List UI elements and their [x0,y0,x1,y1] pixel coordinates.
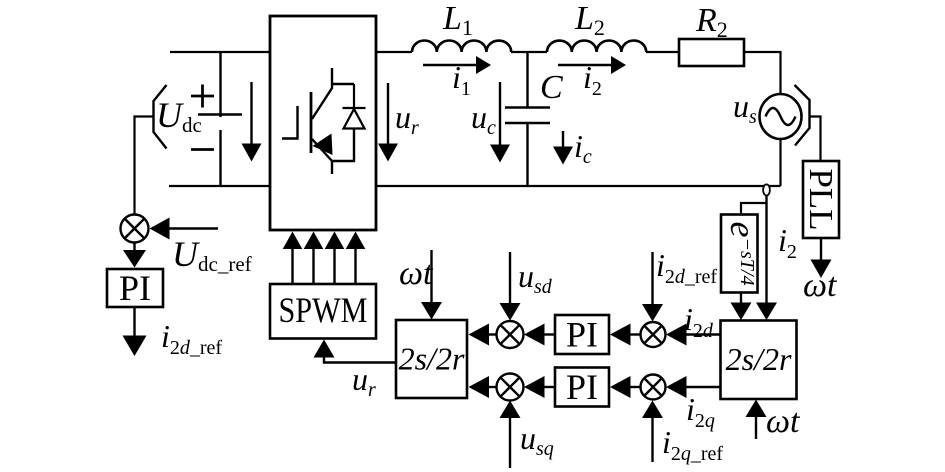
transistor Q1 body bar [310,92,313,153]
brace at us tap [795,85,810,146]
svg-text:PI: PI [119,268,151,308]
wire top rail inverter to L1 [376,51,412,53]
wire tap to delay block [741,203,767,215]
inverter block U1 [270,16,376,230]
svg-text:Udc_ref: Udc_ref [172,234,252,276]
arrow PI1 output i2d_ref [133,307,135,337]
svg-text:ωt: ωt [399,255,434,292]
wire us tap to PLL [810,117,821,162]
wire ur from 2s/2r to SPWM [324,357,396,363]
svg-text:i2q: i2q [686,391,715,432]
svg-text:ωt: ωt [766,403,801,440]
svg-text:Udc: Udc [156,95,202,137]
source us sine [766,108,796,125]
transistor Q1 gate [282,106,298,139]
arrow PI3 to mixer X5 [544,386,555,388]
resistor R2 [679,39,744,66]
wire R2 to source corner [744,52,781,95]
wire top DC rail left [170,51,270,53]
arrow 2s/2r to mixer X3 [686,333,721,335]
wire i2 feedback down [765,196,767,304]
svg-text:i2d: i2d [684,301,714,342]
wire source to bottom rail [779,139,781,187]
capacitor Udc (DC-link) [198,52,242,186]
arrow wt into right 2s/2r [755,416,757,439]
svg-text:i2: i2 [778,222,797,263]
block PI3 [555,368,609,407]
inductor L2 [547,41,646,53]
svg-text:PLL: PLL [802,169,839,231]
arrow uc down [499,82,501,145]
wire bottom rail right [376,185,781,187]
wire L1 to L2 [511,51,547,53]
arrow i1 [423,64,477,66]
transistor Q1 collector [312,68,332,119]
svg-text:ur: ur [395,99,419,139]
block 2s/2r left [396,320,467,398]
wire bottom DC rail left [169,185,270,187]
wire IGBT bottom stub [331,161,333,174]
source us [760,94,802,139]
arrow mixer X4 to PI3 [630,386,641,388]
block PI2 [555,315,609,354]
mixer X4 q-row right [641,375,666,400]
wire IGBT bottom link [332,128,354,161]
block SPWM [270,284,376,339]
svg-text:usd: usd [518,258,553,298]
svg-text:uc: uc [471,99,496,139]
brace at Udc tap [154,85,167,149]
plus sign [191,85,214,108]
arrow gate signal 2 [312,249,314,284]
arrow DC current down [250,82,252,144]
node junction [763,184,770,195]
arrow wt into left 2s/2r [430,250,432,303]
svg-text:usq: usq [520,420,554,460]
mixer X5 q-row [497,374,524,401]
mixer X1 Udc compare [121,215,149,243]
arrow i2d_ref into mixer X3 [651,252,653,305]
arrow usq into mixer X5 [509,418,511,468]
arrow i2q_ref into mixer X4 [651,417,653,462]
arrow d-row into left 2s/2r [488,333,497,335]
svg-text:us: us [733,88,757,128]
svg-text:L1: L1 [442,0,473,40]
svg-text:SPWM: SPWM [279,290,368,330]
svg-text:ic: ic [574,128,592,168]
capacitor C [505,108,550,124]
block PLL [803,161,839,238]
mixer X2 d-row [497,321,524,348]
arrow ur into SPWM [314,340,335,358]
arrow gate signal 4 [354,249,356,284]
arrow PLL output [820,238,822,260]
svg-text:2s/2r: 2s/2r [399,341,465,377]
svg-text:i2d_ref: i2d_ref [656,247,717,288]
wire delay output [740,293,742,304]
wire L2 to R2 [646,51,679,53]
arrow Udc_ref into mixer X1 [168,227,218,229]
minus sign [191,148,214,151]
svg-text:C: C [540,69,563,106]
block 2s/2r right [721,321,797,400]
block delay e^-sT/4 [721,215,758,293]
arrow delay into 2s/2r [731,303,752,321]
arrow ur down [387,83,389,144]
arrow i2 into 2s/2r [756,303,777,321]
svg-text:ωt: ωt [803,267,838,304]
arrow i2 [558,64,612,66]
wire IGBT top link [332,83,354,85]
inductor L1 [412,41,511,53]
svg-text:ur: ur [352,361,376,401]
arrow mixer X1 to PI1 [133,243,135,252]
svg-text:i2d_ref: i2d_ref [161,318,222,359]
arrow ic down [562,131,564,147]
svg-text:PI: PI [566,315,598,355]
mixer X3 d-row right [641,322,666,347]
wire Udc tap to sense line [135,117,154,215]
arrow usd into mixer X2 [509,252,511,304]
arrow PI2 to mixer X2 [544,333,555,335]
svg-text:R2: R2 [695,2,728,42]
arrow gate signal 1 [291,249,293,284]
arrow 2s/2r to mixer X4 [686,386,721,388]
diode D1 [343,84,366,129]
capacitor C bottom lead [526,124,528,187]
block PI1 [107,269,163,307]
transistor Q1 emitter arrow [313,134,333,156]
arrow mixer X3 to PI2 [630,333,641,335]
transistor Q1 emitter [312,139,332,161]
capacitor C branch lead [526,52,528,107]
svg-text:2s/2r: 2s/2r [726,341,792,377]
svg-text:PI: PI [566,367,598,407]
arrow gate signal 3 [333,249,335,284]
arrow q-row into left 2s/2r [488,386,497,388]
svg-text:L2: L2 [574,0,605,40]
